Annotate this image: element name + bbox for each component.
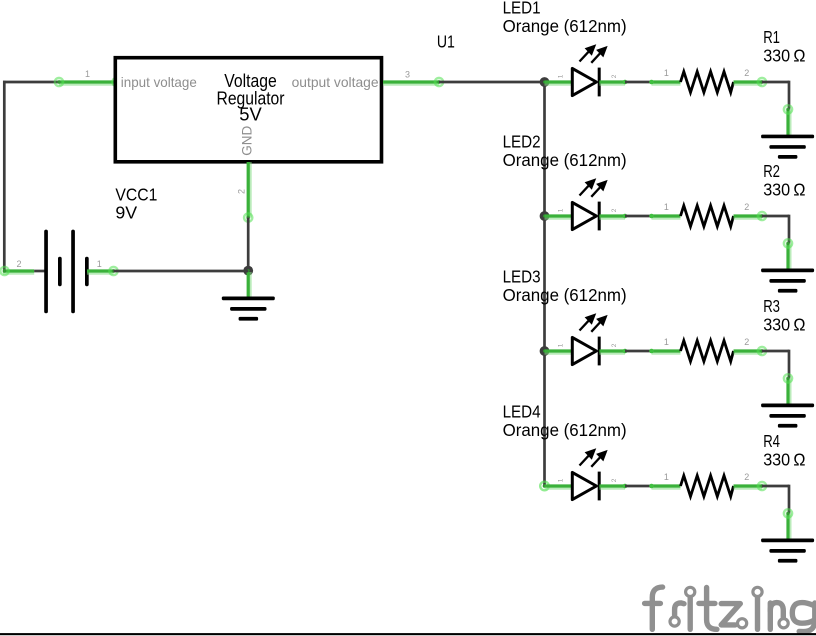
resistor R1 xyxy=(681,72,734,93)
wire down to ground of R1 xyxy=(783,104,794,136)
wire bus to LED2 anode xyxy=(545,216,573,217)
svg-text:LED2: LED2 xyxy=(503,132,541,152)
wire down to ground of R4 xyxy=(783,508,794,540)
svg-text:9V: 9V xyxy=(115,202,137,222)
wire down to ground of R3 xyxy=(783,373,794,405)
svg-text:1: 1 xyxy=(85,69,90,79)
wire GND pin to ground node xyxy=(247,218,250,271)
svg-text:Orange (612nm): Orange (612nm) xyxy=(503,420,627,440)
LED LED3 light arrows xyxy=(580,315,606,332)
wire R3 pin 2 out xyxy=(734,346,768,357)
wire into R2 pin 1 xyxy=(649,214,680,219)
wire into R1 pin 1 xyxy=(649,80,680,85)
wire regulator output pin 3 xyxy=(383,77,444,88)
junction node LED3 xyxy=(540,346,550,356)
wire into R4 pin 1 xyxy=(649,484,680,489)
LED LED4 light arrows xyxy=(580,450,606,467)
wire R4 to ground corner vertical xyxy=(788,485,791,514)
ground below regulator xyxy=(222,297,275,321)
wire bus to LED4 anode xyxy=(545,486,573,487)
svg-text:R2: R2 xyxy=(763,161,780,181)
fritzing watermark logo xyxy=(645,587,815,632)
svg-text:R3: R3 xyxy=(763,296,780,316)
wire R4 to ground corner horizontal xyxy=(762,485,789,488)
wire output to LED bus xyxy=(439,81,545,84)
wire into R3 pin 1 xyxy=(649,349,680,354)
wire R3 to ground corner horizontal xyxy=(762,350,789,353)
ground of R2 xyxy=(761,269,814,293)
wire R2 to ground corner vertical xyxy=(788,215,791,244)
wire vertical left segment xyxy=(3,81,6,273)
resistor R4 xyxy=(681,476,734,497)
svg-text:input voltage: input voltage xyxy=(121,74,197,90)
wire from battery minus loop, horizontal top segment xyxy=(3,81,60,84)
wire pin1 to regulator input xyxy=(54,77,122,88)
ground of R3 xyxy=(761,404,814,428)
svg-text:330 Ω: 330 Ω xyxy=(763,180,805,200)
svg-text:1: 1 xyxy=(664,337,669,347)
svg-text:GND: GND xyxy=(240,126,255,156)
svg-text:330 Ω: 330 Ω xyxy=(763,46,805,66)
LED LED4 symbol xyxy=(572,472,599,501)
svg-text:2: 2 xyxy=(16,259,21,269)
svg-text:1: 1 xyxy=(664,202,669,212)
wire battery to ground node xyxy=(114,270,249,273)
junction node LED1 xyxy=(540,77,550,87)
svg-text:2: 2 xyxy=(744,337,749,347)
svg-text:5V: 5V xyxy=(239,103,262,124)
wire to battery plate xyxy=(34,270,45,273)
svg-text:Orange (612nm): Orange (612nm) xyxy=(503,285,627,305)
wire LED2 to R2 xyxy=(625,215,652,218)
fritzing logo via-dots xyxy=(670,587,788,628)
svg-text:LED3: LED3 xyxy=(503,267,541,287)
voltage regulator U1 box xyxy=(115,58,381,162)
LED LED3 symbol xyxy=(572,337,599,366)
ground of R4 xyxy=(761,539,814,563)
wire end node LED4 xyxy=(540,482,549,491)
ground of R1 xyxy=(761,135,814,159)
wire regulator GND pin 2 xyxy=(243,162,254,223)
LED LED2 symbol xyxy=(572,202,599,231)
svg-text:2: 2 xyxy=(611,74,618,78)
wire LED1 cathode stub xyxy=(599,80,627,85)
svg-text:1: 1 xyxy=(557,208,564,212)
wire LED bus vertical xyxy=(543,82,546,486)
svg-text:330 Ω: 330 Ω xyxy=(763,315,805,335)
LED LED2 light arrows xyxy=(580,180,606,197)
wire LED1 to R1 xyxy=(625,81,652,84)
wire R2 pin 2 out xyxy=(734,211,768,222)
wire R1 to ground corner horizontal xyxy=(762,81,789,84)
wire R2 to ground corner horizontal xyxy=(762,215,789,218)
wire R3 to ground corner vertical xyxy=(788,350,791,379)
svg-text:Orange (612nm): Orange (612nm) xyxy=(503,16,627,36)
svg-text:R4: R4 xyxy=(763,431,780,451)
LED LED1 light arrows xyxy=(580,46,606,63)
svg-text:U1: U1 xyxy=(437,32,455,52)
svg-text:output voltage: output voltage xyxy=(292,74,379,90)
wire R1 to ground corner vertical xyxy=(788,81,791,110)
svg-text:1: 1 xyxy=(557,343,564,347)
wire bus to LED3 anode xyxy=(545,351,573,352)
svg-text:2: 2 xyxy=(744,472,749,482)
svg-text:2: 2 xyxy=(236,189,246,194)
wire LED4 cathode stub xyxy=(599,484,627,489)
wire bus to LED1 anode xyxy=(545,82,573,83)
svg-text:1: 1 xyxy=(664,68,669,78)
svg-text:1: 1 xyxy=(97,259,102,269)
svg-text:2: 2 xyxy=(611,208,618,212)
svg-text:LED1: LED1 xyxy=(503,0,541,18)
resistor R2 xyxy=(681,206,734,227)
wire down to ground of R2 xyxy=(783,238,794,270)
resistor R3 xyxy=(681,341,734,362)
svg-text:2: 2 xyxy=(611,343,618,347)
junction ground node xyxy=(243,266,253,276)
junction node LED2 xyxy=(540,211,550,221)
svg-text:LED4: LED4 xyxy=(503,402,541,422)
wire R1 pin 2 out xyxy=(734,77,768,88)
svg-text:1: 1 xyxy=(664,472,669,482)
svg-text:2: 2 xyxy=(744,68,749,78)
svg-text:R1: R1 xyxy=(763,27,780,47)
svg-text:2: 2 xyxy=(611,478,618,482)
bottom border line xyxy=(0,633,816,635)
wire battery pin 2 xyxy=(0,266,34,277)
svg-text:330 Ω: 330 Ω xyxy=(763,450,805,470)
svg-text:1: 1 xyxy=(557,478,564,482)
battery VCC1 plates xyxy=(44,230,88,314)
wire LED3 cathode stub xyxy=(599,349,627,354)
wire LED2 cathode stub xyxy=(599,214,627,219)
svg-text:3: 3 xyxy=(405,70,410,80)
svg-text:1: 1 xyxy=(557,74,564,78)
svg-text:2: 2 xyxy=(744,202,749,212)
wire R4 pin 2 out xyxy=(734,481,768,492)
wire LED4 to R4 xyxy=(625,485,652,488)
wire LED3 to R3 xyxy=(625,350,652,353)
wire battery pin 1 xyxy=(87,266,119,277)
wire junction to ground symbol xyxy=(248,272,249,300)
LED LED1 symbol xyxy=(572,68,599,97)
svg-text:Orange (612nm): Orange (612nm) xyxy=(503,150,627,170)
